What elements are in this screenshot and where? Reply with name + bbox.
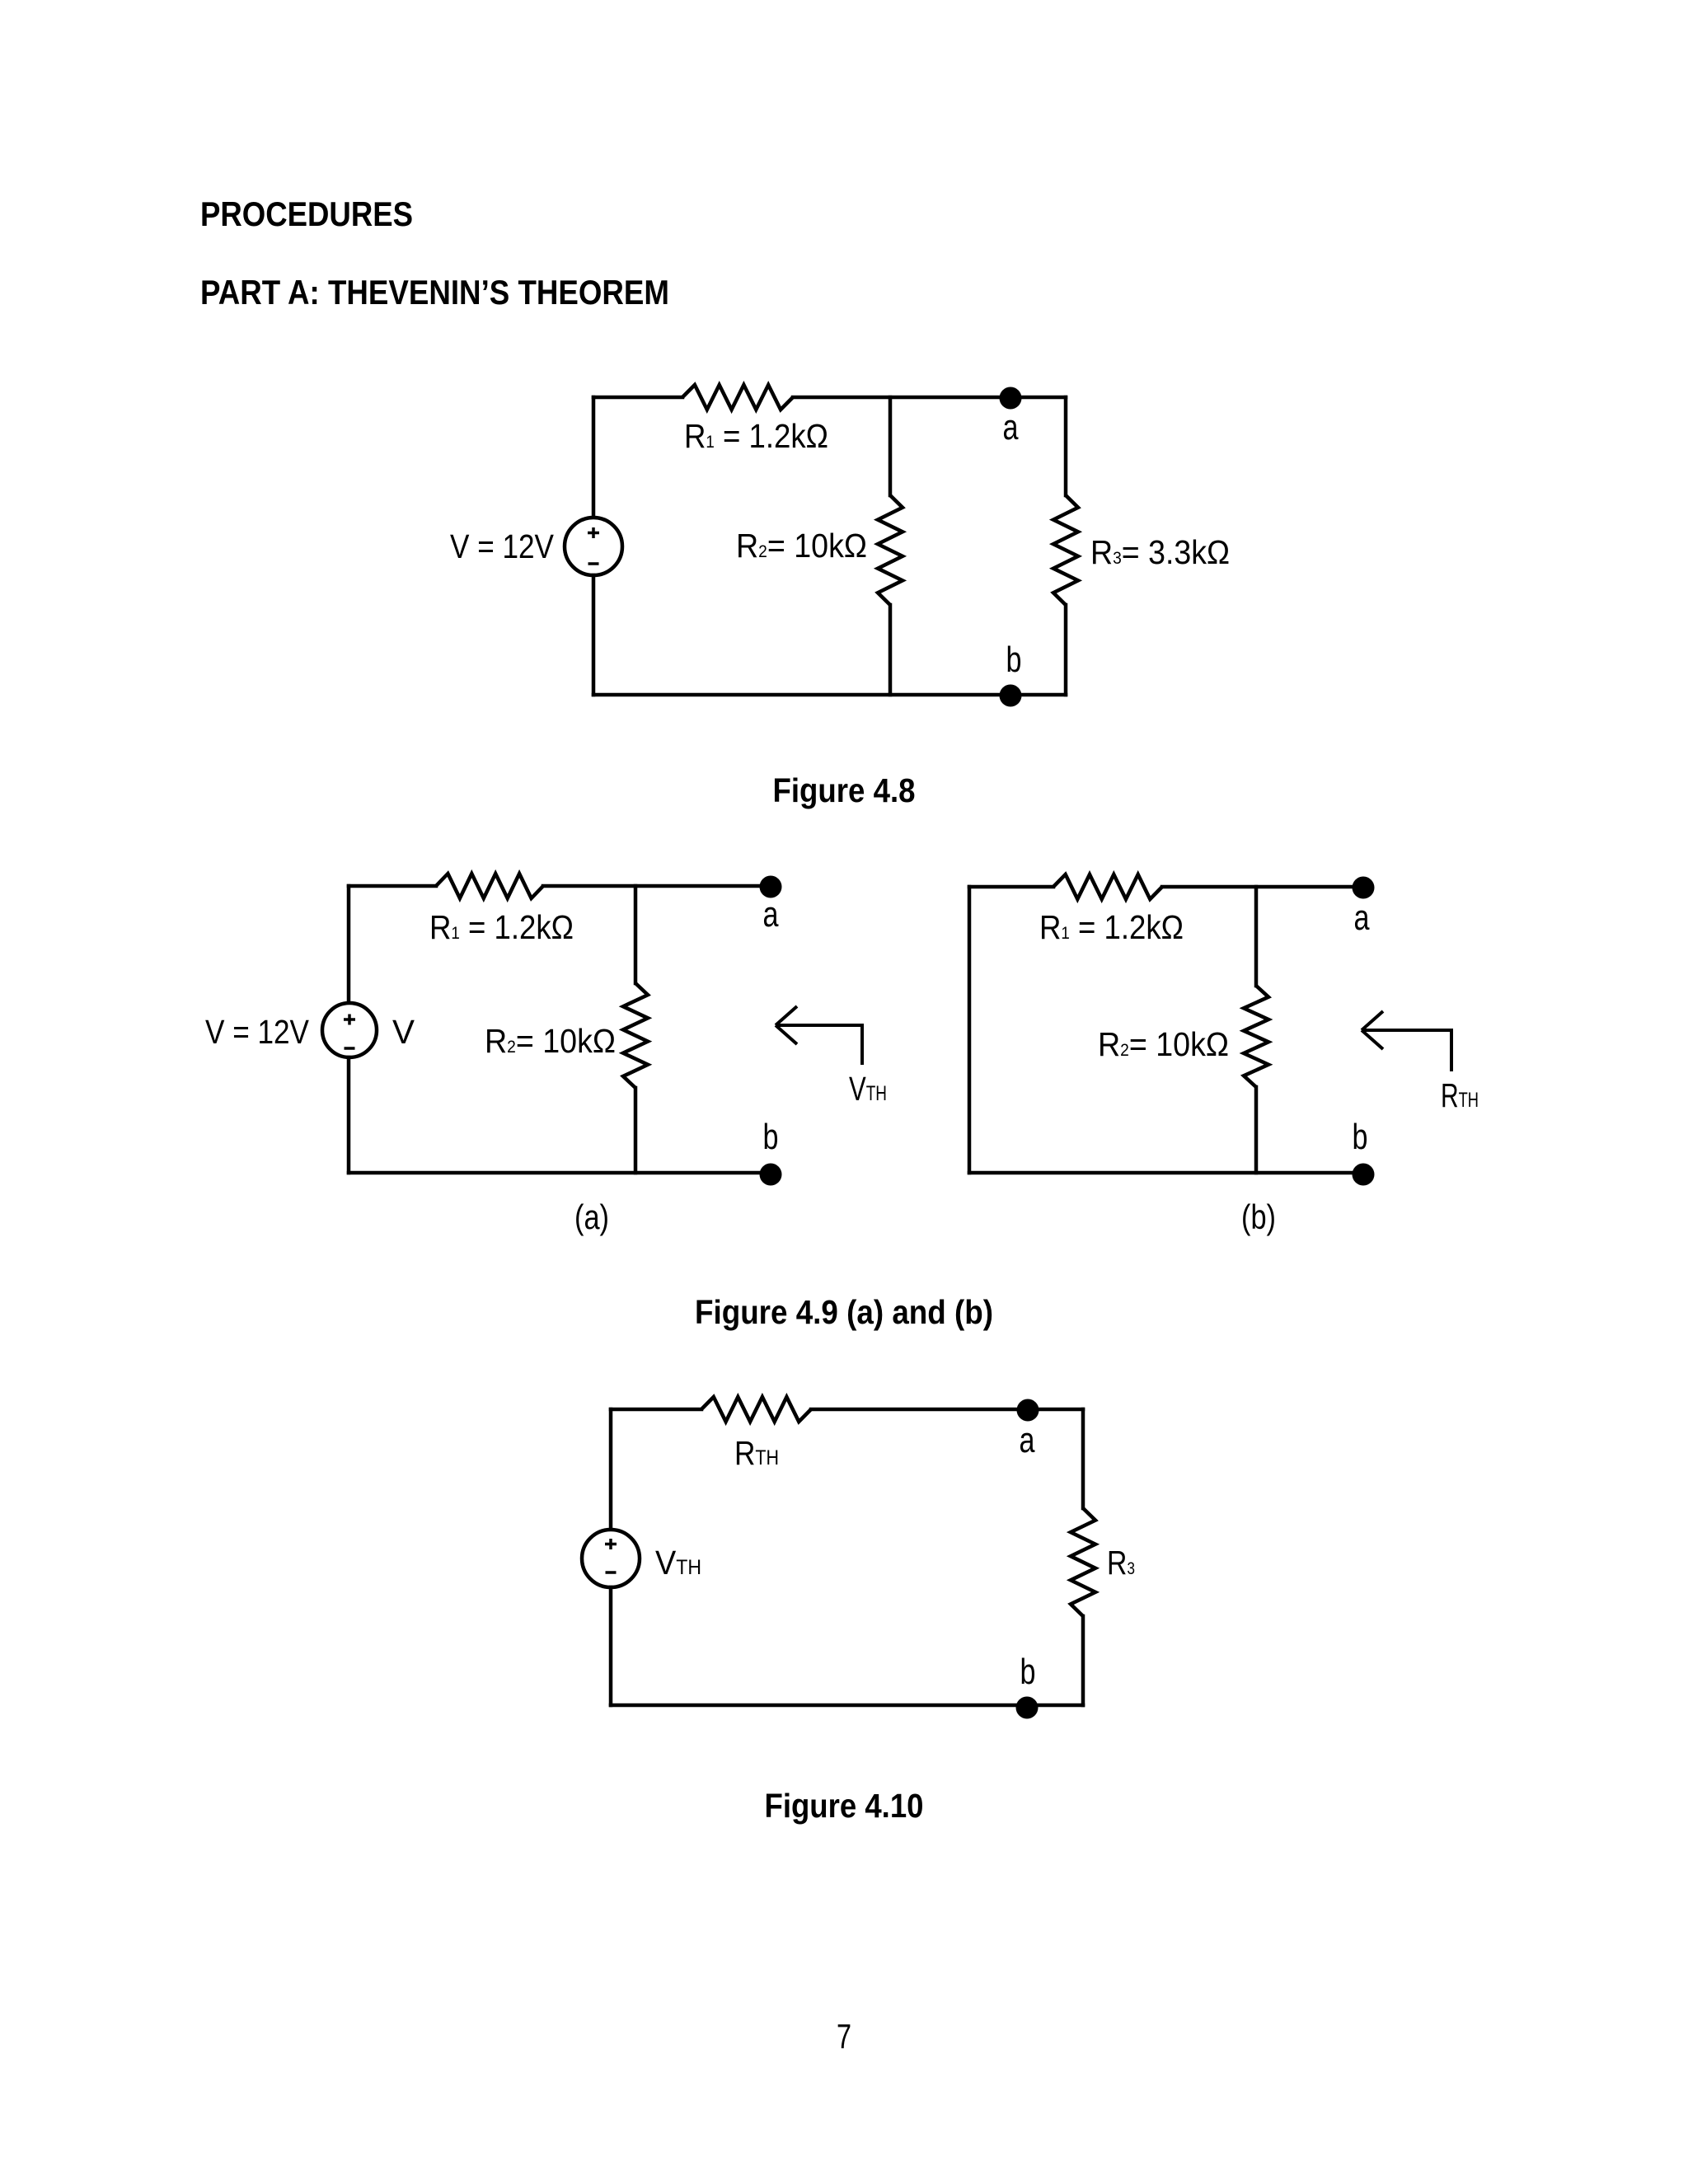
wire fig4.10 bottom: [611, 1704, 1083, 1708]
resistor R3 (fig 4.8): [1053, 495, 1078, 605]
wire fig4.9a top-left segment: [349, 884, 436, 888]
svg-text:a: a: [1020, 1420, 1035, 1460]
wire fig4.10 left lower (source bottom lead): [609, 1587, 613, 1705]
svg-text:RTH: RTH: [1441, 1076, 1479, 1114]
wire fig4.9b bottom: [969, 1171, 1363, 1175]
wire fig4.9b middle branch lower: [1254, 1087, 1259, 1173]
svg-text:R2= 10kΩ: R2= 10kΩ: [485, 1022, 616, 1060]
svg-text:PROCEDURES: PROCEDURES: [200, 194, 413, 233]
node b junction dot (fig 4.9b): [1353, 1164, 1375, 1186]
RTH measurement arrow (fig 4.9b): [1362, 1011, 1451, 1071]
svg-text:(a): (a): [574, 1197, 609, 1236]
wire fig4.10 top-right segment: [811, 1408, 1083, 1412]
svg-text:R1 = 1.2kΩ: R1 = 1.2kΩ: [684, 417, 828, 455]
svg-text:R3= 3.3kΩ: R3= 3.3kΩ: [1090, 533, 1230, 571]
svg-text:Figure 4.9 (a) and (b): Figure 4.9 (a) and (b): [695, 1293, 993, 1331]
voltage source V (fig 4.9a): [322, 1003, 377, 1057]
wire fig4.8 left upper (source top lead): [592, 397, 596, 518]
svg-text:b: b: [763, 1117, 779, 1157]
node b junction dot (fig 4.10): [1016, 1697, 1039, 1719]
svg-text:R2= 10kΩ: R2= 10kΩ: [1098, 1025, 1229, 1063]
wire fig4.8 middle branch lower: [889, 605, 893, 695]
svg-text:b: b: [1353, 1117, 1368, 1157]
resistor RTH (fig 4.10): [701, 1397, 811, 1422]
node a junction dot (fig 4.9a): [760, 876, 782, 898]
node a junction dot (fig 4.10): [1017, 1399, 1039, 1422]
wire fig4.9b middle branch upper: [1254, 887, 1259, 986]
svg-text:a: a: [763, 894, 779, 935]
svg-text:RTH: RTH: [734, 1434, 779, 1472]
svg-text:R1 = 1.2kΩ: R1 = 1.2kΩ: [1039, 908, 1184, 946]
svg-text:VTH: VTH: [849, 1070, 887, 1108]
wire fig4.8 right lower: [1064, 605, 1068, 695]
resistor R1 (fig 4.9b): [1053, 874, 1162, 899]
svg-text:R2= 10kΩ: R2= 10kΩ: [736, 527, 867, 565]
svg-text:R3: R3: [1107, 1544, 1135, 1582]
wire fig4.9b left side: [968, 887, 972, 1173]
wire fig4.8 left lower (source bottom lead): [592, 575, 596, 695]
wire fig4.9a left upper (source top lead): [347, 886, 351, 1004]
svg-text:Figure 4.8: Figure 4.8: [773, 771, 916, 809]
svg-text:7: 7: [837, 2017, 851, 2055]
wire fig4.10 left upper (source top lead): [609, 1409, 613, 1530]
svg-text:V = 12V: V = 12V: [205, 1013, 310, 1051]
wire fig4.10 right lower: [1081, 1616, 1085, 1705]
svg-text:b: b: [1020, 1652, 1036, 1692]
svg-text:(b): (b): [1241, 1197, 1276, 1236]
wire fig4.9a bottom: [349, 1171, 771, 1175]
wire fig4.8 bottom: [593, 693, 1066, 697]
node b junction dot (fig 4.9a): [760, 1164, 782, 1186]
node a junction dot (fig 4.8): [1000, 387, 1022, 410]
svg-text:V: V: [392, 1013, 415, 1051]
wire fig4.8 right upper: [1064, 397, 1068, 495]
wire fig4.8 top-left segment: [593, 396, 682, 400]
wire fig4.9a top-right segment: [543, 884, 771, 888]
voltage source VTH (fig 4.10): [582, 1530, 640, 1587]
svg-text:PART A: THEVENIN’S THEOREM: PART A: THEVENIN’S THEOREM: [200, 273, 669, 312]
node a junction dot (fig 4.9b): [1353, 877, 1375, 899]
resistor R1 (fig 4.8): [682, 385, 793, 410]
svg-text:b: b: [1006, 640, 1022, 680]
wire fig4.9a middle branch lower: [634, 1088, 638, 1173]
svg-text:a: a: [1003, 407, 1019, 448]
resistor R1 (fig 4.9a): [436, 874, 543, 898]
svg-text:a: a: [1354, 898, 1370, 938]
node b junction dot (fig 4.8): [1000, 685, 1022, 707]
svg-text:VTH: VTH: [655, 1544, 701, 1582]
resistor R3 (fig 4.10): [1071, 1508, 1095, 1616]
svg-text:Figure 4.10: Figure 4.10: [765, 1787, 924, 1825]
wire fig4.8 top-right segment: [793, 396, 1066, 400]
wire fig4.9a left lower (source bottom lead): [347, 1057, 351, 1173]
svg-text:V = 12V: V = 12V: [450, 527, 555, 565]
wire fig4.9b top-left segment: [969, 885, 1053, 889]
resistor R2 (fig 4.8): [878, 495, 903, 605]
wire fig4.9b top-right segment: [1162, 885, 1363, 889]
wire fig4.9a middle branch upper: [634, 886, 638, 983]
wire fig4.10 top-left segment: [611, 1408, 701, 1412]
svg-text:R1 = 1.2kΩ: R1 = 1.2kΩ: [429, 908, 574, 946]
voltage source V = 12V (fig 4.8): [565, 518, 622, 575]
wire fig4.10 right upper: [1081, 1409, 1085, 1508]
resistor R2 (fig 4.9a): [623, 983, 648, 1088]
wire fig4.8 middle branch upper: [889, 397, 893, 495]
resistor R2 (fig 4.9b): [1244, 986, 1268, 1087]
VTH measurement arrow (fig 4.9a): [776, 1006, 862, 1065]
